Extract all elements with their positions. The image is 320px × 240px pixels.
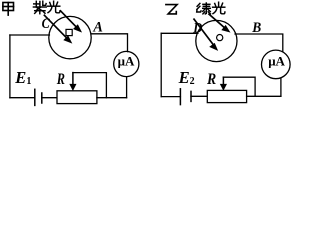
battery E1: long plate bbox=[34, 89, 36, 105]
svg-text:μA: μA bbox=[118, 53, 135, 68]
rheostat R (right): wiper arrow bbox=[220, 77, 226, 90]
wire: tube C-side to left rail bbox=[10, 34, 50, 36]
label 绿 (of 绿光) bbox=[197, 3, 211, 14]
wire: bottom-left to battery E2 bbox=[161, 96, 180, 98]
label 光 (of 绿光) bbox=[213, 2, 225, 14]
wire: rheostat to meter branch (bottom bus, right) bbox=[247, 95, 281, 97]
anode marker (small circle electrode) bbox=[217, 35, 223, 41]
svg-text:R: R bbox=[56, 71, 65, 88]
wire: bottom bus up to microammeter (right) bbox=[280, 78, 282, 96]
phototube T2 (glass envelope) bbox=[196, 20, 237, 61]
wire: bottom bus up to microammeter bbox=[126, 76, 128, 97]
phototube T1 (glass envelope) bbox=[49, 16, 91, 58]
wire: meter top up and left to tube A-side bbox=[91, 34, 128, 52]
svg-text:μA: μA bbox=[268, 53, 285, 68]
light ray arrow 1 (upper, violet light) bbox=[61, 11, 82, 32]
wire: wiper bracket (right circuit) bbox=[223, 77, 255, 96]
battery E2: long plate bbox=[179, 89, 181, 105]
wire: rheostat to meter branch (bottom bus) bbox=[97, 97, 127, 99]
svg-text:D: D bbox=[192, 20, 202, 36]
microammeter U2 bbox=[262, 50, 291, 79]
svg-text:C: C bbox=[42, 16, 51, 32]
label 乙 (figure b) bbox=[166, 5, 177, 14]
light ray arrow 4 (lower, green light) bbox=[194, 19, 217, 50]
wire: wiper bracket (up, right, down to bottom bus) bbox=[73, 73, 107, 98]
wire: battery to rheostat R (right) bbox=[191, 95, 207, 97]
svg-text:R: R bbox=[206, 71, 216, 88]
wire: left rail (vertical, right circuit) bbox=[160, 33, 162, 96]
wire: bottom-left to battery E1 bbox=[10, 97, 35, 99]
microammeter U1 bbox=[114, 51, 139, 76]
battery E1: short plate bbox=[41, 93, 43, 103]
light ray arrow 2 (lower, violet light) bbox=[44, 15, 71, 42]
label 光 (of 紫光) bbox=[48, 1, 60, 13]
rheostat R: wiper arrow bbox=[70, 73, 76, 91]
light ray arrow 3 (upper, green light) bbox=[209, 14, 229, 32]
wire: left rail (vertical) bbox=[9, 35, 11, 98]
battery E2: short plate bbox=[190, 91, 192, 101]
wire: meter top up and left to tube B-side bbox=[235, 34, 283, 51]
anode marker (small square electrode) bbox=[66, 29, 72, 35]
label 甲 (figure a) bbox=[3, 3, 14, 16]
label 紫 (of 紫光) bbox=[33, 1, 46, 14]
rheostat R (right): resistor body bbox=[207, 90, 246, 102]
wire: tube D-side to left rail bbox=[161, 32, 198, 34]
wire: battery to rheostat R bbox=[42, 97, 57, 99]
rheostat R: resistor body bbox=[57, 91, 97, 104]
